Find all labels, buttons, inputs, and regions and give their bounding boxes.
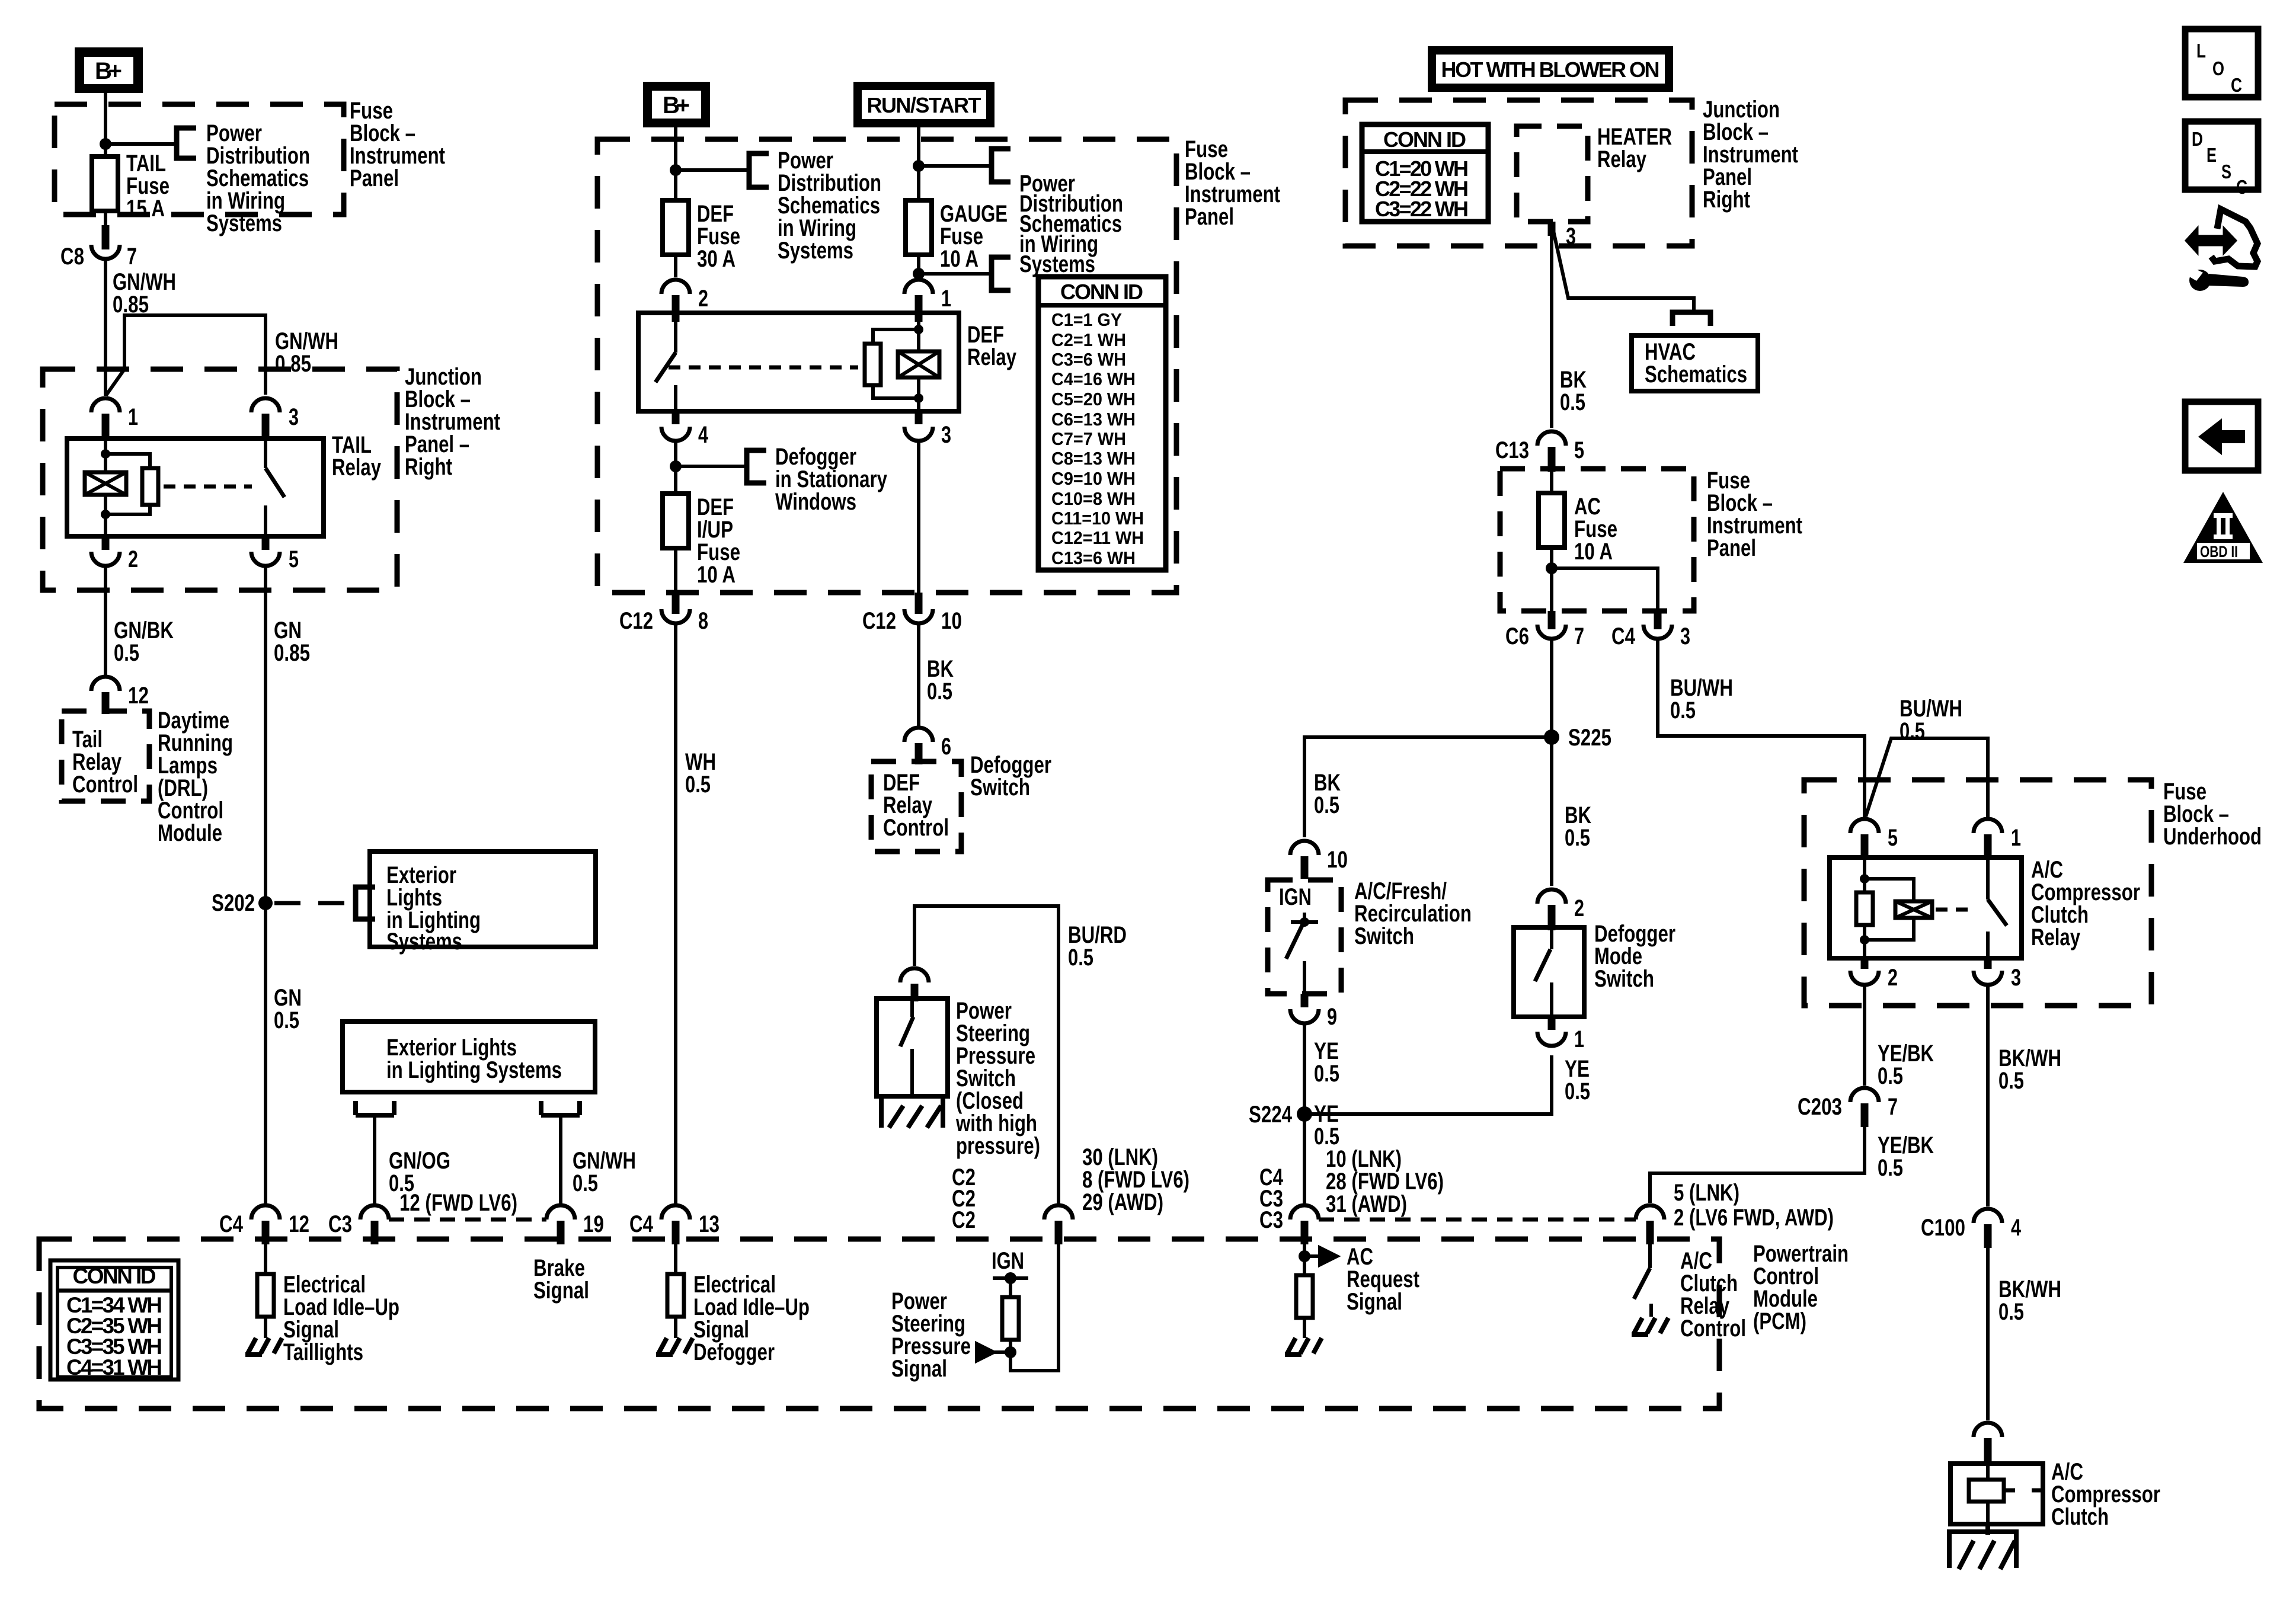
svg-text:0.5: 0.5 [1670, 697, 1696, 724]
svg-text:B+: B+ [95, 58, 122, 84]
junction block instrument panel right dashed box (heater) [1345, 100, 1692, 246]
node S224 splice [1249, 1102, 1312, 1128]
svg-text:Systems: Systems [1019, 251, 1095, 277]
svg-text:CONN ID: CONN ID [73, 1264, 156, 1288]
node junction RUN/START lower [913, 268, 925, 280]
power steering pressure switch box [877, 998, 948, 1096]
svg-text:Panel: Panel [350, 165, 399, 191]
svg-text:0.5: 0.5 [1565, 1078, 1590, 1105]
wire GN/WH down to pin 19 [559, 1115, 562, 1204]
svg-text:D: D [2192, 128, 2203, 150]
svg-text:C3: C3 [1259, 1207, 1283, 1233]
connector 6 defogger switch [904, 728, 951, 764]
ground taillights signal [245, 1338, 282, 1355]
svg-text:Control: Control [1680, 1315, 1746, 1342]
svg-text:Schematics: Schematics [1645, 361, 1747, 388]
icon LOC box [2185, 29, 2258, 97]
power symbol HOT WITH BLOWER ON [1428, 46, 1673, 92]
ground ac clutch relay control [1632, 1318, 1668, 1334]
fuse block instrument panel dashed box (middle) [597, 139, 1176, 593]
label GN/WH 0.85 (C8 wire) [113, 269, 176, 318]
svg-text:IGN: IGN [992, 1248, 1024, 1274]
svg-text:5: 5 [289, 546, 299, 572]
node junction RUN/START upper [913, 160, 925, 172]
label Fuse Block - Instrument Panel (left) [350, 98, 445, 191]
icon OBD II triangle [2183, 492, 2263, 563]
svg-text:10: 10 [941, 608, 962, 634]
label TAIL Fuse 15 A [126, 151, 170, 222]
svg-text:Panel: Panel [1707, 535, 1756, 561]
label A/C Clutch Relay Control [1680, 1248, 1746, 1342]
switch DEF relay [655, 313, 676, 411]
svg-text:5 (LNK): 5 (LNK) [1674, 1180, 1739, 1206]
conn id table (pcm) [50, 1260, 178, 1379]
label Brake Signal [533, 1255, 589, 1304]
svg-text:Relay: Relay [967, 344, 1017, 370]
svg-text:12: 12 [128, 683, 149, 709]
icon data exchange / wrench [2186, 209, 2257, 291]
pcm ac clutch relay control switch [1634, 1241, 1651, 1317]
svg-text:RUN/START: RUN/START [867, 93, 981, 117]
svg-text:C4: C4 [629, 1211, 654, 1237]
fuse block instrument panel dashed box (AC) [1500, 469, 1694, 611]
wire AC fuse to C6 pin 7 [1550, 548, 1553, 616]
svg-text:C10=8 WH: C10=8 WH [1051, 488, 1136, 509]
svg-text:5: 5 [1574, 437, 1584, 463]
label BK/WH 0.5 (pin3) [1998, 1045, 2061, 1094]
wire RUN/START to GAUGE fuse [917, 127, 920, 200]
svg-text:C3: C3 [328, 1211, 352, 1237]
wire B+ to DEF fuse [674, 127, 677, 200]
wire branch upper to power distribution (middle-right) [919, 164, 990, 168]
connector 5 ac compressor clutch relay [1850, 819, 1898, 857]
svg-text:10 A: 10 A [697, 562, 736, 588]
wire dashed 12 (FWD LV6) link [389, 1218, 546, 1222]
label DEF Fuse 30 A [697, 201, 740, 272]
svg-text:0.5: 0.5 [1068, 945, 1093, 971]
svg-text:Windows: Windows [775, 489, 856, 515]
label Defogger in Stationary Windows [775, 444, 888, 515]
label Fuse Block - Underhood [2163, 779, 2262, 850]
label Power Distribution Schematics in Wiring Systems (middle-right) [1019, 171, 1123, 277]
svg-text:3: 3 [289, 404, 299, 430]
resistor DEF relay suppression [865, 329, 919, 398]
label Power Steering Pressure Switch (Closed with high pressure) [955, 998, 1040, 1159]
svg-text:Clutch: Clutch [2051, 1504, 2109, 1530]
svg-text:Module: Module [158, 820, 222, 846]
off-page bracket power distribution (middle-left) [749, 153, 769, 187]
label Electrical Load Idle-Up Signal Taillights [283, 1272, 399, 1365]
svg-text:2: 2 [128, 546, 138, 572]
wire dashed actuation link DEF relay [669, 366, 858, 370]
label Power Distribution Schematics in Wiring Systems (middle-left) [778, 148, 881, 264]
svg-text:7: 7 [127, 244, 137, 270]
svg-text:Relay: Relay [332, 454, 382, 481]
label C2 C2 C2 stack [952, 1164, 976, 1233]
wire DEF I/UP fuse to C12 pin 8 [674, 548, 677, 600]
svg-text:Signal: Signal [533, 1278, 589, 1304]
fuse block underhood dashed box [1804, 780, 2151, 1006]
connector 4 def relay [661, 411, 709, 448]
wire connector 4 to DEF I/UP fuse [674, 441, 677, 494]
svg-text:S224: S224 [1249, 1102, 1293, 1128]
svg-text:1: 1 [1574, 1026, 1584, 1052]
svg-text:C100: C100 [1921, 1215, 1965, 1241]
pcm power steering pressure signal circuit [976, 1241, 1059, 1371]
svg-text:S: S [2221, 161, 2231, 183]
svg-text:3: 3 [1566, 223, 1576, 249]
svg-text:Relay: Relay [1597, 146, 1647, 172]
wire slant jog to pin 1 feed [1866, 738, 1988, 818]
svg-text:C4: C4 [1611, 623, 1636, 649]
label A/C/Fresh/ Recirculation Switch [1354, 878, 1472, 949]
connector C12 pin 10 [862, 593, 962, 634]
label TAIL Relay [332, 432, 382, 481]
label BU/RD 0.5 [1068, 922, 1127, 971]
svg-text:0.5: 0.5 [1314, 1061, 1339, 1087]
svg-text:Systems: Systems [778, 238, 853, 264]
off-page bracket lower (middle-right) [992, 257, 1011, 290]
wire GAUGE fuse to connector 1 [917, 255, 920, 277]
bracket under exterior lights left [356, 1101, 394, 1115]
svg-text:0.5: 0.5 [1878, 1155, 1903, 1181]
svg-text:15 A: 15 A [126, 196, 165, 222]
svg-text:0.5: 0.5 [1878, 1063, 1903, 1089]
connector 1 defogger mode switch [1537, 1017, 1584, 1052]
label GN/WH 0.85 (jumper) [275, 328, 338, 377]
label Power Steering Pressure Signal [891, 1288, 971, 1382]
off-page bracket exterior lights (S202) [356, 887, 375, 919]
ground ac request [1285, 1338, 1322, 1355]
svg-text:C8: C8 [60, 244, 84, 270]
connector C12 pin 8 [619, 593, 708, 634]
label GN 0.5 [274, 985, 302, 1033]
svg-text:Right: Right [1703, 187, 1750, 213]
svg-text:C3=6 WH: C3=6 WH [1051, 349, 1126, 370]
wire S225 branch left [1304, 737, 1552, 837]
connector ac compressor clutch [1974, 1423, 2002, 1464]
label Junction Block - Instrument Panel Right [1703, 97, 1798, 213]
label BK 0.5 (right branch) [1565, 802, 1591, 851]
svg-text:Signal: Signal [891, 1356, 947, 1382]
icon DESC box [2185, 121, 2258, 198]
wire branch to defogger stationary windows [676, 465, 744, 468]
label DEF Relay Control [883, 770, 949, 841]
svg-text:C4=16 WH: C4=16 WH [1051, 369, 1136, 389]
label YE/BK 0.5 (pin2) [1878, 1041, 1934, 1089]
label A/C Compressor Clutch [2051, 1459, 2160, 1530]
off-page bracket upper (middle-right) [992, 149, 1011, 182]
wire pin5 to S202 to PCM [264, 566, 267, 1204]
off-page bracket power distribution (left) [177, 128, 196, 158]
wire S224 to defogger mode switch [1304, 1055, 1552, 1114]
box HVAC Schematics [1632, 335, 1758, 391]
wire connector 3 to C12 pin 10 [917, 441, 920, 600]
wire DEF fuse to connector 2 [674, 255, 677, 277]
svg-text:0.85: 0.85 [275, 351, 311, 377]
connector power steering pressure switch [900, 968, 929, 1001]
svg-text:10 A: 10 A [1574, 539, 1613, 565]
svg-text:1: 1 [2011, 825, 2021, 851]
svg-text:Control: Control [72, 772, 138, 798]
pcm ac request signal circuit [1296, 1241, 1338, 1338]
svg-text:8: 8 [698, 608, 708, 634]
svg-text:C2: C2 [952, 1207, 976, 1233]
wire C100 to compressor clutch connector [1986, 1238, 1990, 1420]
resistor electrical load idle-up defogger [667, 1241, 684, 1338]
svg-text:C12: C12 [619, 608, 653, 634]
svg-text:5: 5 [1888, 825, 1898, 851]
svg-text:Control: Control [883, 815, 949, 841]
wire GN/WH jumper loop pin1 to pin3 [124, 315, 266, 395]
svg-text:1: 1 [128, 404, 138, 430]
connector pin 3 junction block [251, 398, 299, 438]
node coil top dot [101, 449, 110, 459]
relay A/C Compressor Clutch Relay box [1830, 857, 2022, 958]
label YE 0.5 (S224 lower) [1314, 1101, 1339, 1150]
fuse TAIL Fuse 15 A [92, 156, 118, 211]
connector 12 tail relay control [91, 677, 149, 714]
svg-text:O: O [2212, 57, 2224, 79]
svg-text:0.5: 0.5 [1998, 1299, 2024, 1325]
svg-text:3: 3 [941, 422, 951, 448]
node junction above DEF fuse [670, 164, 682, 176]
wire C203 to PCM 5(LNK) pin [1650, 1118, 1865, 1203]
svg-text:C6: C6 [1505, 623, 1529, 649]
label BK 0.5 (heater wire) [1560, 367, 1587, 415]
wire heater relay to C13 [1550, 231, 1553, 428]
node junction AC fuse output [1546, 562, 1558, 574]
connector pin 5 junction block [251, 536, 299, 572]
label Fuse Block - Instrument Panel (middle) [1185, 136, 1280, 230]
svg-text:C: C [2231, 74, 2242, 96]
svg-text:IGN: IGN [1279, 884, 1312, 910]
wire branch to C4 pin 3 [1552, 568, 1658, 616]
svg-text:C8=13 WH: C8=13 WH [1051, 448, 1136, 469]
wire power steering pressure loop top [914, 906, 1059, 1204]
connector C2 pin 29 (power steering signal) [1044, 1205, 1073, 1244]
svg-text:CONN ID: CONN ID [1060, 280, 1143, 304]
relay coil (box with X) DEF [898, 313, 939, 411]
wire C13 to AC fuse [1550, 469, 1553, 493]
connector C3 (exterior lights) [328, 1205, 389, 1244]
svg-text:Signal: Signal [1347, 1289, 1402, 1315]
switch ac relay [1988, 857, 2007, 958]
svg-text:Systems: Systems [206, 210, 282, 236]
relay coil (box with X) TAIL [85, 472, 126, 495]
junction block instrument panel right dashed box [43, 369, 397, 590]
wire dashed splice link to exterior lights [274, 901, 353, 905]
svg-text:C13: C13 [1495, 437, 1529, 463]
svg-text:Panel: Panel [1185, 204, 1234, 230]
svg-text:1: 1 [941, 286, 951, 312]
def relay control dashed box [871, 761, 961, 852]
svg-text:0.85: 0.85 [274, 640, 310, 666]
svg-text:C4: C4 [219, 1211, 244, 1237]
relay TAIL Relay box [67, 438, 324, 536]
fuse block instrument panel dashed box (left) [55, 104, 344, 215]
label GAUGE Fuse 10 A [940, 201, 1008, 272]
switch defogger mode [1535, 927, 1552, 1017]
svg-text:S202: S202 [212, 890, 255, 916]
wire branch to power distribution reference [105, 142, 175, 146]
wire branch to power distribution (middle-left) [676, 168, 747, 172]
svg-text:30 A: 30 A [697, 246, 736, 272]
label 5 (LNK) / 2 (LV6 FWD, AWD) [1674, 1180, 1834, 1231]
svg-text:S225: S225 [1568, 725, 1611, 751]
svg-text:E: E [2207, 144, 2217, 166]
switch TAIL relay [266, 438, 284, 536]
relay coil (box with X) ac relay [1865, 879, 1932, 940]
ac compressor clutch box [1950, 1464, 2043, 1524]
ac fresh recirculation switch dashed box [1268, 880, 1341, 994]
label Exterior Lights in Lighting Systems (upper) [386, 862, 481, 955]
label GN/OG 0.5 [389, 1148, 450, 1196]
connector C8 pin 7 [60, 225, 137, 270]
svg-text:9: 9 [1327, 1004, 1337, 1030]
svg-text:0.5: 0.5 [927, 678, 952, 705]
connector 2 defogger mode switch [1537, 889, 1584, 930]
connector 2 def relay [661, 280, 708, 322]
svg-text:C9=10 WH: C9=10 WH [1051, 468, 1136, 489]
connector 3 ac relay [1974, 958, 2021, 991]
ground defogger signal [656, 1338, 693, 1355]
label YE 0.5 (pin 9) [1314, 1038, 1339, 1087]
svg-text:pressure): pressure) [956, 1133, 1040, 1159]
label Fuse Block - Instrument Panel (AC) [1707, 468, 1802, 561]
wire C6 pin 7 to S225 [1550, 639, 1553, 886]
connector 10 ac fresh switch [1290, 841, 1348, 879]
label Electrical Load Idle-Up Signal Defogger [693, 1272, 810, 1365]
defogger mode switch box [1514, 927, 1584, 1017]
connector pin 3 heater relay [1552, 222, 1576, 249]
wire pin 2 to C203 [1863, 985, 1866, 1086]
fuse AC Fuse 10 A [1539, 493, 1565, 548]
svg-text:Defogger: Defogger [693, 1339, 775, 1365]
ground power steering pressure switch [881, 1096, 943, 1128]
svg-text:in Lighting Systems: in Lighting Systems [386, 1057, 562, 1083]
connector C203 pin 7 [1798, 1088, 1898, 1127]
wire pin 9 to S224 [1303, 1023, 1306, 1204]
svg-text:C12=11 WH: C12=11 WH [1051, 527, 1144, 548]
svg-text:Switch: Switch [1594, 966, 1654, 992]
bracket under exterior lights right [541, 1101, 580, 1115]
node S225 splice [1544, 725, 1611, 751]
powertrain control module dashed box [39, 1239, 1719, 1409]
svg-text:OBD II: OBD II [2200, 543, 2238, 561]
svg-text:10 A: 10 A [940, 246, 978, 272]
label Junction Block - Instrument Panel - Right [405, 364, 500, 480]
box Exterior Lights in Lighting Systems (lower) [343, 1022, 595, 1092]
ground ac compressor clutch [1949, 1524, 2016, 1569]
svg-text:3: 3 [2011, 965, 2021, 991]
svg-text:C7=7 WH: C7=7 WH [1051, 428, 1126, 449]
svg-text:Switch: Switch [1354, 923, 1414, 949]
svg-text:0.5: 0.5 [1900, 718, 1925, 744]
bracket into HVAC schematics [1673, 312, 1710, 326]
connector pin 2 junction block [91, 536, 138, 572]
svg-text:0.5: 0.5 [1560, 389, 1585, 415]
svg-text:C203: C203 [1798, 1094, 1842, 1120]
node S202 splice [212, 890, 273, 916]
connector C3 pin 31 (ac request) [1290, 1205, 1319, 1244]
svg-text:Underhood: Underhood [2163, 824, 2262, 850]
fuse GAUGE Fuse 10 A [906, 200, 932, 255]
power symbol RUN/START [853, 82, 994, 127]
node junction defogger stationary [670, 460, 682, 472]
svg-text:C1=1 GY: C1=1 GY [1051, 309, 1122, 330]
resistor TAIL relay suppression [105, 454, 158, 514]
connector C4 pin 13 (defogger idle-up) [629, 1205, 720, 1244]
relay HEATER Relay dashed box [1517, 126, 1588, 222]
connector C6 pin 7 [1505, 611, 1584, 649]
node coil bottom dot [101, 510, 110, 519]
svg-text:Systems: Systems [386, 929, 462, 955]
svg-text:C: C [2236, 176, 2247, 198]
wire pin2 to connector 12 [104, 566, 107, 676]
label 10 (LNK) 28 (FWD LV6) 31 (AWD) [1326, 1146, 1444, 1217]
wire C8 to junction block pin 1 [104, 259, 107, 396]
label GN/WH 0.5 (brake) [573, 1148, 636, 1196]
svg-text:12 (FWD LV6): 12 (FWD LV6) [399, 1190, 517, 1216]
coil ac compressor clutch [1969, 1464, 2043, 1524]
wire GN/OG down to C3 [373, 1115, 376, 1204]
connector 2 ac relay [1850, 958, 1898, 991]
wire B+ to TAIL fuse [104, 93, 107, 156]
label BU/WH 0.5 (relay feed) [1900, 696, 1962, 744]
resistor ac relay (in coil line) [1856, 857, 1873, 958]
svg-text:Taillights: Taillights [283, 1339, 363, 1365]
label Tail Relay Control [72, 726, 138, 798]
svg-text:HOT WITH BLOWER ON: HOT WITH BLOWER ON [1441, 57, 1660, 82]
svg-text:2: 2 [698, 286, 708, 312]
wire slant jog into pin 1 [106, 369, 124, 395]
svg-text:C5=20 WH: C5=20 WH [1051, 389, 1136, 409]
svg-text:6: 6 [941, 734, 951, 760]
connector pin 19 (brake signal) [546, 1205, 604, 1244]
connector 9 ac fresh switch [1290, 994, 1337, 1030]
svg-text:4: 4 [698, 422, 709, 448]
svg-text:Relay: Relay [2031, 924, 2081, 950]
box Exterior Lights in Lighting Systems (upper) [370, 852, 596, 947]
conn id table (middle) [1038, 277, 1166, 570]
label Powertrain Control Module (PCM) [1753, 1241, 1849, 1334]
wire TAIL fuse to connector C8 [104, 211, 107, 236]
connector C13 pin 5 [1495, 431, 1584, 472]
label AC Request Signal [1347, 1244, 1419, 1315]
wire coil top stub [104, 438, 107, 472]
wire coil bottom stub [104, 495, 107, 536]
wire C12 pin 8 down to C4 pin 13 [674, 623, 677, 1204]
label GN 0.85 [274, 617, 310, 666]
svg-text:31 (AWD): 31 (AWD) [1326, 1191, 1407, 1217]
connector C4 pin 12 (taillights) [219, 1205, 309, 1244]
wire pin 3 to C100 [1986, 985, 1990, 1206]
label DEF I/UP Fuse 10 A [697, 494, 740, 588]
connector 1 def relay [904, 280, 951, 322]
label C4 C3 C3 stack [1259, 1164, 1284, 1233]
svg-text:C13=6 WH: C13=6 WH [1051, 548, 1136, 568]
connector C100 pin 4 [1921, 1209, 2022, 1248]
svg-text:29 (AWD): 29 (AWD) [1082, 1189, 1163, 1215]
power symbol B+ (middle) [643, 82, 710, 127]
conn id table (heater) [1362, 124, 1488, 222]
label GN/BK 0.5 [114, 617, 174, 666]
svg-text:0.5: 0.5 [685, 772, 711, 798]
label 30 (LNK) 8 (FWD LV6) 29 (AWD) [1082, 1144, 1189, 1215]
switch ac fresh recirculation [1286, 913, 1318, 994]
svg-text:(PCM): (PCM) [1753, 1308, 1806, 1334]
